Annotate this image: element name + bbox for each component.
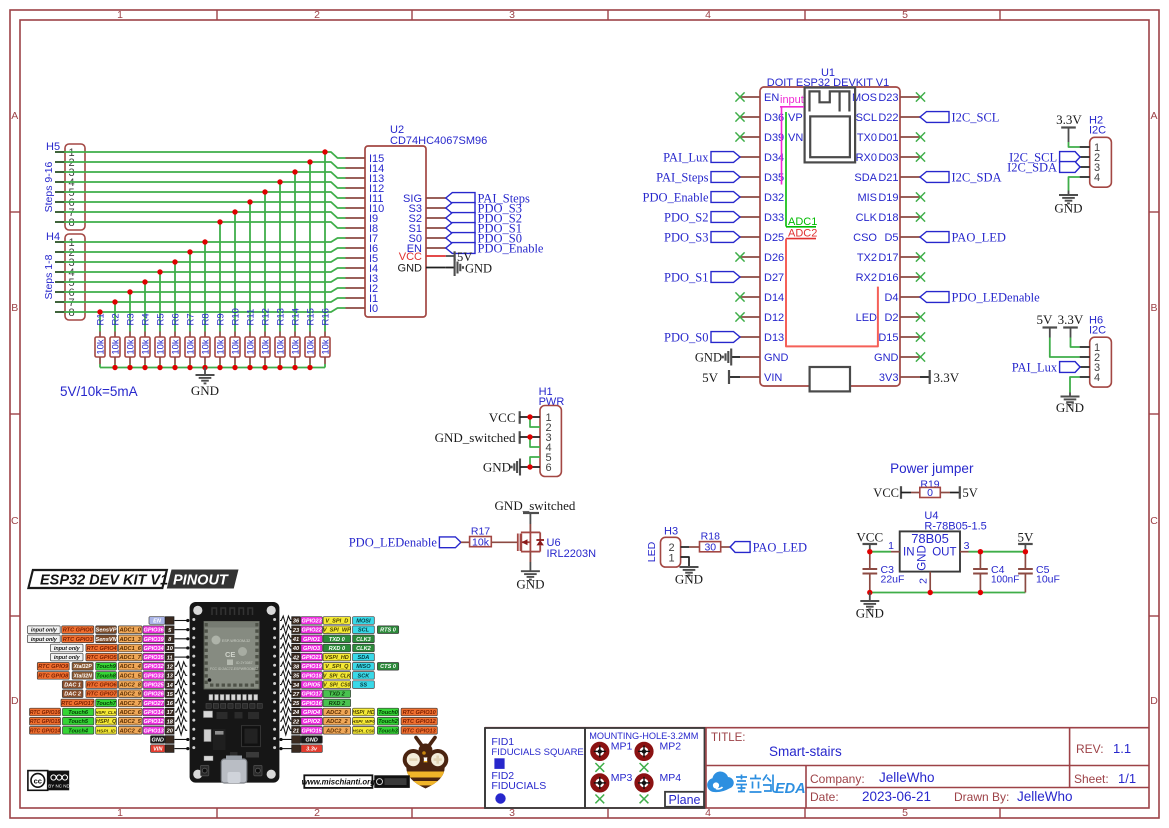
svg-text:OUT: OUT (932, 547, 956, 559)
net flag PDO_S0 (664, 330, 740, 344)
svg-text:I2C_SDA: I2C_SDA (952, 170, 1002, 184)
svg-text:VCC: VCC (873, 486, 899, 500)
junctions on rail (112, 365, 312, 370)
svg-text:2: 2 (314, 807, 320, 819)
header H3 LED (646, 526, 689, 568)
no-connect X (916, 272, 925, 281)
no-connect X (735, 132, 744, 141)
pinout right row 5 (280, 653, 374, 662)
wire H6.4 to GND (1070, 377, 1080, 393)
svg-text:15: 15 (167, 692, 174, 698)
svg-text:cc: cc (34, 776, 42, 785)
svg-text:GND: GND (305, 738, 317, 744)
net flag PDO_S3 (664, 230, 740, 244)
transistor U6 IRL2203N (518, 524, 596, 562)
svg-text:Xtal32P: Xtal32P (73, 664, 93, 670)
pinout left row 6 (37, 662, 187, 671)
no-connect X (735, 252, 744, 261)
pinout right row 15 (279, 745, 322, 753)
svg-text:41: 41 (292, 637, 299, 643)
svg-text:GND: GND (398, 263, 423, 275)
svg-text:V_SPI_CS0: V_SPI_CS0 (323, 683, 350, 689)
REV 1.1 (1076, 741, 1131, 756)
no-connect X (735, 92, 744, 101)
net flag PDO_Enable (446, 241, 544, 255)
net flag PDO_LEDenable (920, 290, 1040, 304)
svg-text:25: 25 (292, 701, 300, 707)
power VCC at H1 (489, 410, 540, 425)
wire H2.4 to GND (1069, 177, 1080, 191)
svg-text:R11: R11 (245, 309, 256, 326)
svg-text:RTC GPIO7: RTC GPIO7 (87, 692, 118, 698)
svg-text:ADC1_6: ADC1_6 (118, 646, 141, 652)
wire H4.2 to U2 I6 (64, 248, 346, 332)
svg-text:I2C_SDA: I2C_SDA (1007, 160, 1057, 174)
resistor R6 10k (170, 313, 181, 367)
svg-text:PDO_LEDenable: PDO_LEDenable (952, 290, 1041, 304)
svg-text:EN: EN (764, 92, 779, 104)
svg-text:40: 40 (292, 646, 300, 652)
svg-text:input only: input only (31, 637, 58, 643)
svg-text:R6: R6 (170, 313, 181, 325)
svg-text:SDA: SDA (854, 172, 877, 184)
svg-text:38: 38 (293, 665, 300, 671)
svg-text:GPIO1: GPIO1 (303, 637, 320, 643)
logo JLCEDA (707, 771, 805, 797)
svg-text:VSPI_HD: VSPI_HD (325, 655, 349, 661)
junction at R9 top (217, 219, 222, 224)
net flag PDO_S2 (446, 211, 522, 225)
svg-text:24: 24 (292, 710, 300, 716)
svg-text:VCC: VCC (399, 251, 422, 263)
svg-text:GND_switched: GND_switched (435, 430, 516, 445)
power 5V at U1 VIN (702, 370, 740, 385)
svg-text:RTC GPIO16: RTC GPIO16 (30, 710, 61, 716)
svg-text:RX2: RX2 (856, 272, 877, 284)
svg-text:MP3: MP3 (611, 772, 633, 784)
svg-text:D13: D13 (764, 332, 784, 344)
svg-text:D27: D27 (764, 272, 784, 284)
svg-text:GPIO25: GPIO25 (143, 683, 164, 689)
wire H4.3 to U2 I5 (64, 258, 346, 332)
wire 3.3V to H2.1 (1069, 142, 1080, 147)
svg-text:GPIO2: GPIO2 (303, 719, 321, 725)
net flag I2C_SCL (1009, 150, 1080, 164)
svg-text:10k: 10k (320, 339, 331, 355)
svg-text:D14: D14 (764, 292, 784, 304)
ground GND at H3 (675, 567, 703, 587)
header H6 I2C (1080, 315, 1112, 388)
svg-text:C: C (1150, 515, 1158, 527)
pinout left row 7 (37, 671, 187, 680)
svg-text:MP4: MP4 (660, 772, 682, 784)
svg-text:R15: R15 (305, 308, 316, 325)
svg-text:3.3v: 3.3v (306, 747, 318, 753)
svg-text:JelleWho: JelleWho (1017, 789, 1073, 804)
svg-text:R14: R14 (290, 308, 301, 325)
svg-text:34: 34 (293, 683, 300, 689)
svg-text:Plane: Plane (669, 793, 701, 807)
resistor R10 10k (230, 308, 241, 367)
pinout right row 7 (280, 671, 374, 680)
svg-text:6: 6 (546, 462, 552, 474)
svg-text:GPIO35: GPIO35 (143, 655, 164, 661)
resistor R19 0 (911, 479, 950, 500)
svg-text:RTC GPIO10: RTC GPIO10 (403, 710, 437, 716)
svg-text:Steps 9-16: Steps 9-16 (43, 161, 55, 212)
header H4 (43, 231, 85, 320)
svg-text:RTS 0: RTS 0 (380, 628, 397, 634)
svg-text:FIDUCIALS: FIDUCIALS (491, 780, 546, 792)
svg-text:10k: 10k (110, 339, 121, 355)
svg-text:Touch5: Touch5 (68, 719, 89, 725)
svg-text:GND: GND (516, 577, 544, 592)
svg-text:JelleWho: JelleWho (879, 770, 935, 785)
pinout right row 10 (280, 698, 351, 707)
CC license icons bottom-left (28, 771, 71, 791)
power 3.3V at H2 (1056, 112, 1082, 142)
svg-text:D33: D33 (764, 212, 784, 224)
svg-text:ADC2: ADC2 (788, 228, 817, 240)
note 5V/10k=5mA (60, 384, 138, 399)
svg-text:TXD 2: TXD 2 (329, 692, 346, 698)
power 3.3V at U1 3V3 (920, 370, 960, 385)
svg-text:D12: D12 (764, 312, 784, 324)
no-connect X (916, 312, 925, 321)
svg-text:Drawn By:: Drawn By: (954, 790, 1009, 804)
wire H5.4 to U2 I12 (64, 182, 346, 332)
svg-text:B: B (1150, 302, 1157, 314)
svg-text:GND: GND (483, 460, 511, 475)
pinout left row 9 (62, 689, 187, 698)
svg-text:Sheet:: Sheet: (1074, 772, 1109, 786)
svg-text:GND: GND (191, 383, 219, 398)
capacitor C5 10uF (1018, 552, 1060, 593)
wire H5.6 to U2 I10 (64, 202, 346, 332)
svg-text:SCL: SCL (358, 628, 370, 634)
svg-text:RTC GPIO4: RTC GPIO4 (87, 646, 118, 652)
pinout right row 9 (280, 689, 351, 698)
junction at R12 top (262, 189, 267, 194)
svg-text:12: 12 (167, 665, 174, 671)
svg-text:RXD 0: RXD 0 (329, 646, 346, 652)
junction at R16 top (322, 149, 327, 154)
svg-text:2023-06-21: 2023-06-21 (862, 789, 931, 804)
resistor R16 10k (320, 308, 331, 367)
net flag PDO_LEDenable (349, 536, 461, 550)
power 5V at C5 (1017, 530, 1034, 552)
net flag PAO_LED (920, 230, 1006, 244)
svg-text:5: 5 (902, 9, 908, 21)
pinout left row 4 (51, 644, 190, 652)
svg-text:BY NC ND: BY NC ND (48, 784, 70, 789)
svg-text:IN: IN (903, 547, 915, 559)
wire H4.7 to U2 I1 (64, 298, 346, 332)
resistor R13 10k (275, 308, 286, 367)
U1 usb connector drawing (810, 367, 850, 391)
svg-text:10k: 10k (215, 339, 226, 355)
power 5V at H6 (1037, 312, 1058, 338)
pinout left row 2 (28, 626, 190, 634)
note Power jumper (890, 461, 974, 476)
svg-text:MP2: MP2 (660, 740, 682, 752)
svg-text:10k: 10k (200, 339, 211, 355)
svg-text:H5: H5 (46, 141, 60, 153)
svg-text:GPIO16: GPIO16 (301, 701, 322, 707)
svg-text:PINOUT: PINOUT (173, 573, 229, 589)
wire ground rail under U4 (870, 592, 1026, 594)
Plane box (665, 792, 704, 807)
svg-text:HSPI_ID: HSPI_ID (97, 728, 117, 734)
svg-text:D4: D4 (884, 292, 898, 304)
pinout right row 14 (279, 736, 322, 744)
junction at R13 top (277, 179, 282, 184)
svg-text:EDA: EDA (775, 781, 806, 797)
resistor R3 10k (125, 313, 136, 367)
resistor R1 10k (95, 313, 106, 367)
pinout left row 13 (30, 726, 188, 735)
svg-text:5V/10k=5mA: 5V/10k=5mA (60, 384, 138, 399)
wire H5.8 to U2 I8 (64, 222, 346, 332)
svg-text:GND: GND (856, 606, 884, 621)
svg-text:35: 35 (293, 674, 300, 680)
svg-text:I15: I15 (369, 153, 384, 165)
svg-text:EN: EN (153, 619, 162, 625)
ground GND of resistor rail (191, 368, 219, 399)
svg-text:R1: R1 (95, 313, 106, 325)
svg-text:20: 20 (166, 729, 174, 735)
no-connect X (735, 312, 744, 321)
svg-text:RTC GPIO5: RTC GPIO5 (87, 655, 118, 661)
svg-text:PDO_S1: PDO_S1 (664, 270, 708, 284)
svg-text:5V: 5V (963, 486, 978, 500)
no-connect X (916, 352, 925, 361)
mcu U1 DOIT ESP32 DEVKIT V1 (740, 67, 920, 386)
svg-text:PAI_Steps: PAI_Steps (656, 170, 708, 184)
junction at R1 top (97, 309, 102, 314)
svg-text:GPIO14: GPIO14 (143, 710, 164, 716)
svg-text:GPIO22: GPIO22 (301, 628, 322, 634)
svg-text:10k: 10k (155, 339, 166, 355)
svg-text:SensVN: SensVN (95, 637, 117, 643)
svg-text:VP: VP (788, 112, 803, 124)
svg-text:10k: 10k (185, 339, 196, 355)
wire H4.1 to U2 I7 (64, 238, 346, 332)
junction at R3 top (127, 289, 132, 294)
svg-text:R8: R8 (200, 313, 211, 325)
svg-text:GND: GND (874, 352, 899, 364)
junction at R5 top (157, 269, 162, 274)
svg-text:GPIO23: GPIO23 (301, 619, 322, 625)
junctions around U4 (867, 549, 1028, 595)
net flag PAI_Lux (663, 150, 740, 164)
svg-text:ADC1_4: ADC1_4 (118, 664, 141, 670)
svg-text:VCC: VCC (489, 410, 516, 425)
wire H4.8 to U2 I0 (64, 308, 346, 332)
svg-text:17: 17 (167, 710, 174, 716)
svg-text:PDO_LEDenable: PDO_LEDenable (349, 536, 438, 550)
svg-text:ADC2_9: ADC2_9 (118, 692, 141, 698)
svg-text:DAC 2: DAC 2 (64, 692, 82, 698)
multiplexer U2 CD74HC4067SM96 (346, 124, 488, 317)
power VCC at R19 (873, 486, 911, 500)
svg-text:Steps 1-8: Steps 1-8 (43, 254, 55, 299)
svg-text:RTC GPIO8: RTC GPIO8 (38, 673, 69, 679)
svg-text:FIDUCIALS SQUARE: FIDUCIALS SQUARE (491, 747, 583, 758)
svg-text:3: 3 (964, 540, 970, 552)
wire H4.6 to U2 I2 (64, 288, 346, 332)
pinout right row 2 (280, 625, 399, 634)
svg-text:V_SPI_Q: V_SPI_Q (325, 664, 349, 670)
svg-text:TX2: TX2 (857, 252, 877, 264)
svg-text:Touch3: Touch3 (378, 728, 399, 734)
svg-text:R3: R3 (125, 313, 136, 325)
pinout right row 4 (280, 643, 374, 652)
svg-text:GPIO18: GPIO18 (301, 673, 322, 679)
svg-text:GND: GND (152, 738, 164, 744)
net label ADC2 + wire path (786, 228, 878, 347)
no-connect X (916, 92, 925, 101)
svg-text:42: 42 (292, 655, 300, 661)
svg-text:ADC2_6: ADC2_6 (118, 710, 141, 716)
wire H5.3 to U2 I13 (64, 172, 346, 332)
svg-text:100nF: 100nF (991, 575, 1019, 586)
svg-text:VCC: VCC (856, 530, 883, 545)
svg-text:Touch6: Touch6 (68, 710, 89, 716)
svg-text:10k: 10k (290, 339, 301, 355)
svg-text:MOSI: MOSI (356, 619, 371, 625)
svg-text:D23: D23 (878, 92, 898, 104)
no-connect X (916, 252, 925, 261)
pinout right row 8 (280, 680, 374, 689)
svg-text:input: input (780, 94, 804, 106)
junction at R7 top (187, 249, 192, 254)
svg-text:ADC1_0: ADC1_0 (118, 628, 141, 634)
svg-text:H3: H3 (664, 526, 678, 538)
junction at R14 top (292, 169, 297, 174)
svg-text:10k: 10k (125, 339, 136, 355)
svg-text:Smart-stairs: Smart-stairs (769, 744, 842, 759)
svg-text:input only: input only (31, 628, 58, 634)
svg-text:V_SPI_D: V_SPI_D (325, 619, 348, 625)
svg-text:input only: input only (54, 646, 81, 652)
wire H1.5-H1.6 tie + junction (527, 457, 540, 470)
svg-text:1: 1 (117, 807, 123, 819)
svg-text:D18: D18 (878, 212, 898, 224)
svg-text:GPIO39: GPIO39 (143, 637, 164, 643)
svg-text:GND: GND (917, 545, 929, 571)
svg-text:D19: D19 (878, 192, 898, 204)
power GND_switched above U6 (495, 498, 576, 524)
pinout right row 6 (280, 662, 399, 671)
svg-text:1: 1 (669, 553, 675, 565)
resistor R4 10k (140, 313, 151, 367)
capacitor C3 22uF (863, 552, 905, 593)
wire 3.3V to H6.1 (1071, 338, 1080, 348)
svg-text:GND_switched: GND_switched (495, 498, 576, 513)
svg-text:GPIO33: GPIO33 (143, 673, 164, 679)
svg-text:CSO: CSO (853, 232, 877, 244)
junction at R15 top (307, 159, 312, 164)
Date / Drawn By (810, 789, 1073, 804)
no-connect X (916, 212, 925, 221)
svg-text:Touch0: Touch0 (378, 710, 399, 716)
svg-text:RTC GPIO14: RTC GPIO14 (30, 728, 61, 734)
svg-text:R13: R13 (275, 308, 286, 325)
svg-text:D26: D26 (764, 252, 784, 264)
svg-text:ID 2Y3087: ID 2Y3087 (236, 661, 253, 665)
svg-text:1.1: 1.1 (1113, 741, 1131, 756)
ESP32 pinout image title (28, 570, 237, 589)
svg-text:RXD 2: RXD 2 (329, 701, 346, 707)
svg-text:D03: D03 (878, 152, 898, 164)
svg-text:GPIO27: GPIO27 (143, 701, 164, 707)
svg-text:ADC2_0: ADC2_0 (325, 710, 348, 716)
resistor R11 10k (245, 309, 256, 368)
svg-text:HSPI_CLK: HSPI_CLK (95, 710, 117, 715)
junction at R4 top (142, 279, 147, 284)
pinout right row 13 (280, 726, 437, 735)
no-connect X (735, 292, 744, 301)
svg-text:8: 8 (69, 307, 75, 319)
svg-text:Touch9: Touch9 (96, 664, 117, 670)
regulator U4 R-78B05-1.5 (888, 510, 987, 593)
svg-text:CLK2: CLK2 (356, 646, 371, 652)
svg-text:4: 4 (1094, 172, 1100, 184)
svg-text:input only: input only (54, 655, 81, 661)
svg-text:PDO_S0: PDO_S0 (664, 330, 708, 344)
net flag PAO_LED (730, 540, 807, 554)
capacitor C4 100nF (973, 552, 1019, 593)
svg-text:D15: D15 (878, 332, 898, 344)
header H5 (43, 141, 85, 230)
svg-text:5V: 5V (1037, 312, 1054, 327)
svg-text:10k: 10k (305, 339, 316, 355)
svg-text:4: 4 (1094, 372, 1100, 384)
wire resistor bottom rail (100, 367, 325, 369)
resistor R15 10k (305, 308, 316, 367)
svg-text:GPIO26: GPIO26 (143, 692, 164, 698)
svg-text:10k: 10k (95, 339, 106, 355)
svg-text:Power jumper: Power jumper (890, 461, 974, 476)
svg-text:VIN: VIN (153, 747, 163, 753)
svg-text:CE: CE (225, 650, 235, 659)
bee logo (402, 738, 449, 789)
svg-text:I2C: I2C (1089, 125, 1106, 137)
svg-text:3.3V: 3.3V (934, 370, 960, 385)
svg-text:CLK: CLK (856, 212, 878, 224)
wire H4.4 to U2 I4 (64, 268, 346, 332)
svg-text:B: B (11, 302, 18, 314)
svg-text:3.3V: 3.3V (1056, 112, 1082, 127)
svg-text:RX0: RX0 (856, 152, 877, 164)
resistor R12 10k (260, 308, 271, 367)
U1 antenna drawing (805, 88, 856, 163)
header H1 PWR (539, 386, 565, 477)
svg-text:ADC2_3: ADC2_3 (325, 728, 348, 734)
svg-text:MISO: MISO (356, 664, 371, 670)
power 3.3V at H6 (1058, 312, 1084, 338)
svg-text:www.mischianti.org: www.mischianti.org (302, 778, 376, 787)
svg-text:V_SPI_WP: V_SPI_WP (323, 628, 351, 634)
Company JelleWho (810, 770, 935, 786)
ground GND at U2 (446, 259, 492, 276)
svg-text:HSPI_Q: HSPI_Q (96, 719, 117, 725)
svg-text:TX0: TX0 (857, 132, 877, 144)
svg-text:ADC1_3: ADC1_3 (118, 637, 141, 643)
svg-text:HSPI_CS0: HSPI_CS0 (353, 728, 375, 733)
svg-text:GND: GND (1054, 201, 1082, 216)
